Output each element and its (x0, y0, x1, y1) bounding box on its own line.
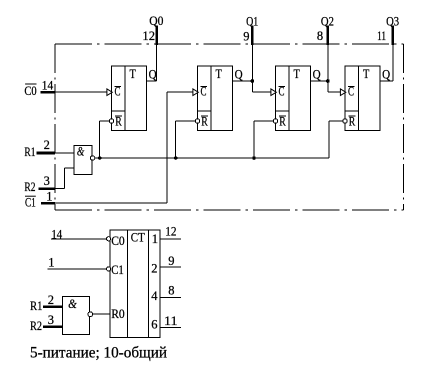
svg-text:Q: Q (235, 68, 243, 82)
svg-text:C0: C0 (24, 84, 36, 98)
IC package boundary (dash-dot frame) (55, 44, 403, 210)
svg-text:Q: Q (313, 68, 321, 82)
T flip-flop U3 (271, 66, 311, 130)
svg-text:9: 9 (168, 254, 174, 268)
node junction U1 reset (98, 156, 102, 160)
overline C0 input (25, 83, 36, 85)
svg-text:Q: Q (149, 68, 157, 82)
svg-text:4: 4 (151, 289, 158, 303)
svg-text:8: 8 (168, 284, 174, 298)
block output wire pin 8 (160, 296, 181, 298)
block input wire pin 14 (51, 238, 107, 240)
svg-text:1: 1 (48, 256, 54, 270)
svg-text:2: 2 (151, 262, 157, 276)
svg-text:R2: R2 (24, 180, 35, 194)
svg-text:C: C (201, 85, 207, 99)
input R1 pin 2 wire (37, 152, 74, 155)
block output wire pin 12 (160, 238, 181, 240)
Q0 output wire (147, 26, 157, 81)
svg-text:1: 1 (152, 232, 158, 246)
U2 reset wire (176, 121, 196, 158)
svg-text:R: R (279, 115, 286, 129)
svg-text:&: & (77, 144, 85, 158)
block input wire pin 1 (48, 268, 107, 270)
svg-text:T: T (363, 67, 370, 81)
svg-text:R1: R1 (30, 299, 43, 313)
svg-text:T: T (130, 67, 137, 81)
svg-text:R0: R0 (111, 307, 125, 321)
Q1 output wire (233, 26, 253, 81)
svg-text:C: C (348, 85, 354, 99)
overline C1 input (25, 195, 36, 197)
input R2 wire (block) (43, 325, 62, 328)
svg-text:T: T (216, 67, 223, 81)
svg-text:Q2: Q2 (321, 15, 334, 29)
svg-text:2: 2 (48, 293, 54, 307)
svg-text:2: 2 (44, 138, 50, 152)
svg-text:6: 6 (151, 318, 157, 332)
svg-text:C: C (115, 85, 121, 99)
svg-text:12: 12 (165, 225, 176, 239)
svg-text:CT: CT (131, 231, 145, 245)
block output wire pin 9 (160, 266, 181, 268)
block output wire pin 11 (160, 327, 181, 329)
svg-text:Q3: Q3 (386, 15, 399, 29)
svg-text:R: R (349, 115, 356, 129)
svg-text:3: 3 (44, 174, 50, 188)
T flip-flop U1 (107, 66, 147, 130)
svg-text:14: 14 (51, 227, 62, 241)
AND gate U6 (block reset gate) (62, 297, 92, 335)
svg-text:T: T (294, 67, 301, 81)
U1 reset wire (100, 121, 110, 158)
svg-text:R1: R1 (24, 145, 35, 159)
svg-text:11: 11 (377, 29, 386, 43)
node junction Q2 (326, 79, 330, 83)
input C0 pin 14 wire (40, 91, 108, 94)
svg-text:C: C (279, 85, 285, 99)
wire gate to R0 (93, 313, 110, 315)
counter block symbol DD1 (107, 230, 161, 338)
input C1 pin 1 wire (41, 92, 194, 203)
svg-text:12: 12 (142, 29, 155, 43)
svg-text:5-питание; 10-общий: 5-питание; 10-общий (30, 345, 167, 362)
node junction U2 reset (174, 156, 178, 160)
svg-text:3: 3 (48, 313, 54, 327)
svg-text:C1: C1 (111, 263, 124, 277)
node junction U3 reset (252, 156, 256, 160)
wire Q2 to U4 clock (328, 81, 342, 92)
T flip-flop U2 (193, 66, 233, 130)
input R1 wire (block) (43, 306, 62, 309)
svg-text:R: R (201, 115, 208, 129)
svg-text:11: 11 (164, 314, 178, 328)
svg-text:Q1: Q1 (246, 15, 258, 29)
svg-text:8: 8 (317, 29, 323, 43)
node junction Q1 (250, 79, 254, 83)
svg-text:14: 14 (42, 78, 54, 92)
wire Q1 to U3 clock (252, 81, 272, 92)
svg-text:9: 9 (243, 29, 249, 43)
T flip-flop U4 (340, 66, 380, 130)
svg-text:C0: C0 (111, 234, 125, 248)
svg-text:Q0: Q0 (149, 14, 163, 28)
svg-text:C1: C1 (25, 195, 36, 209)
svg-text:Q: Q (382, 68, 390, 82)
input R2 pin 3 wire (39, 168, 75, 189)
U3 reset wire (254, 121, 273, 158)
svg-text:1: 1 (46, 189, 52, 203)
Q3 output wire (380, 26, 393, 81)
U4 reset wire (329, 121, 343, 158)
svg-text:R: R (115, 115, 122, 129)
svg-text:R2: R2 (30, 319, 42, 333)
AND gate U5 (reset gate) (74, 145, 95, 174)
Q2 output wire (311, 26, 328, 81)
svg-text:&: & (68, 297, 77, 311)
common reset net wire (95, 157, 329, 159)
